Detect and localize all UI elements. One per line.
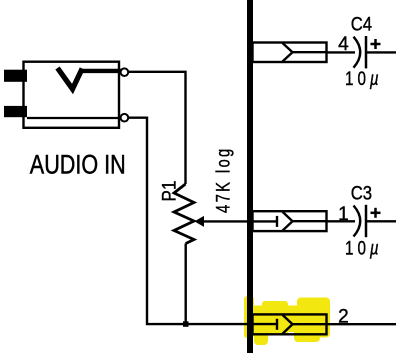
potentiometer P1 zigzag bbox=[174, 184, 194, 244]
junction dot bbox=[183, 321, 189, 327]
value 10u (C3) bbox=[345, 237, 383, 259]
pin number 4 bbox=[338, 34, 349, 55]
C3 plus sign bbox=[371, 208, 381, 218]
jack switch contact (V lever) bbox=[58, 68, 122, 89]
tag pin 2 bbox=[253, 314, 327, 334]
svg-text:C3: C3 bbox=[351, 183, 372, 204]
pin number 1 bbox=[338, 204, 349, 225]
svg-text:10µ: 10µ bbox=[345, 237, 383, 259]
pot wiper arrow bbox=[194, 216, 277, 227]
tag pin 4 bbox=[253, 43, 327, 63]
wire: C4 to edge bbox=[366, 51, 396, 53]
svg-text:AUDIO IN: AUDIO IN bbox=[30, 150, 126, 180]
pin number 2 bbox=[338, 306, 349, 327]
wire: jack top terminal to pot top bbox=[128, 72, 185, 184]
jack sleeve lever wire bbox=[27, 117, 119, 119]
highlighter mark (yellow) over pin 2 tag bbox=[244, 296, 330, 345]
wire: tag 2 to edge bbox=[327, 323, 396, 325]
bus bar (IC edge) bbox=[247, 0, 253, 353]
wire end tick (pin 2 tag) bbox=[276, 319, 278, 330]
C4 plus sign bbox=[371, 39, 381, 49]
wire: C3 to edge bbox=[366, 220, 396, 222]
label AUDIO IN bbox=[30, 150, 126, 180]
label P1 bbox=[159, 181, 180, 202]
label 47K log bbox=[213, 146, 234, 213]
label C4 bbox=[351, 14, 372, 35]
tag pin 1 bbox=[253, 211, 327, 231]
value 10u (C4) bbox=[345, 68, 383, 90]
svg-text:47K log: 47K log bbox=[213, 146, 234, 213]
wire end tick (pin 1 tag) bbox=[276, 216, 278, 227]
svg-text:10µ: 10µ bbox=[345, 68, 383, 90]
jack terminal pin (top) bbox=[121, 68, 129, 76]
wire: tag 4 to C4 bbox=[327, 51, 356, 53]
wire: pot bottom lead to junction bbox=[184, 244, 186, 325]
svg-text:C4: C4 bbox=[351, 14, 372, 35]
wire: jack bottom terminal down and along bottom bbox=[128, 118, 277, 324]
svg-text:P1: P1 bbox=[159, 181, 180, 202]
jack sleeve contact tab bbox=[4, 106, 27, 117]
jack terminal pin (bottom) bbox=[121, 114, 129, 122]
capacitor C3 bbox=[354, 205, 367, 237]
label C3 bbox=[351, 183, 372, 204]
connector J1 audio jack socket body bbox=[24, 62, 120, 128]
jack tip contact tab bbox=[4, 70, 27, 82]
capacitor C4 bbox=[354, 36, 367, 68]
wire: tag 1 to C3 bbox=[327, 220, 356, 222]
